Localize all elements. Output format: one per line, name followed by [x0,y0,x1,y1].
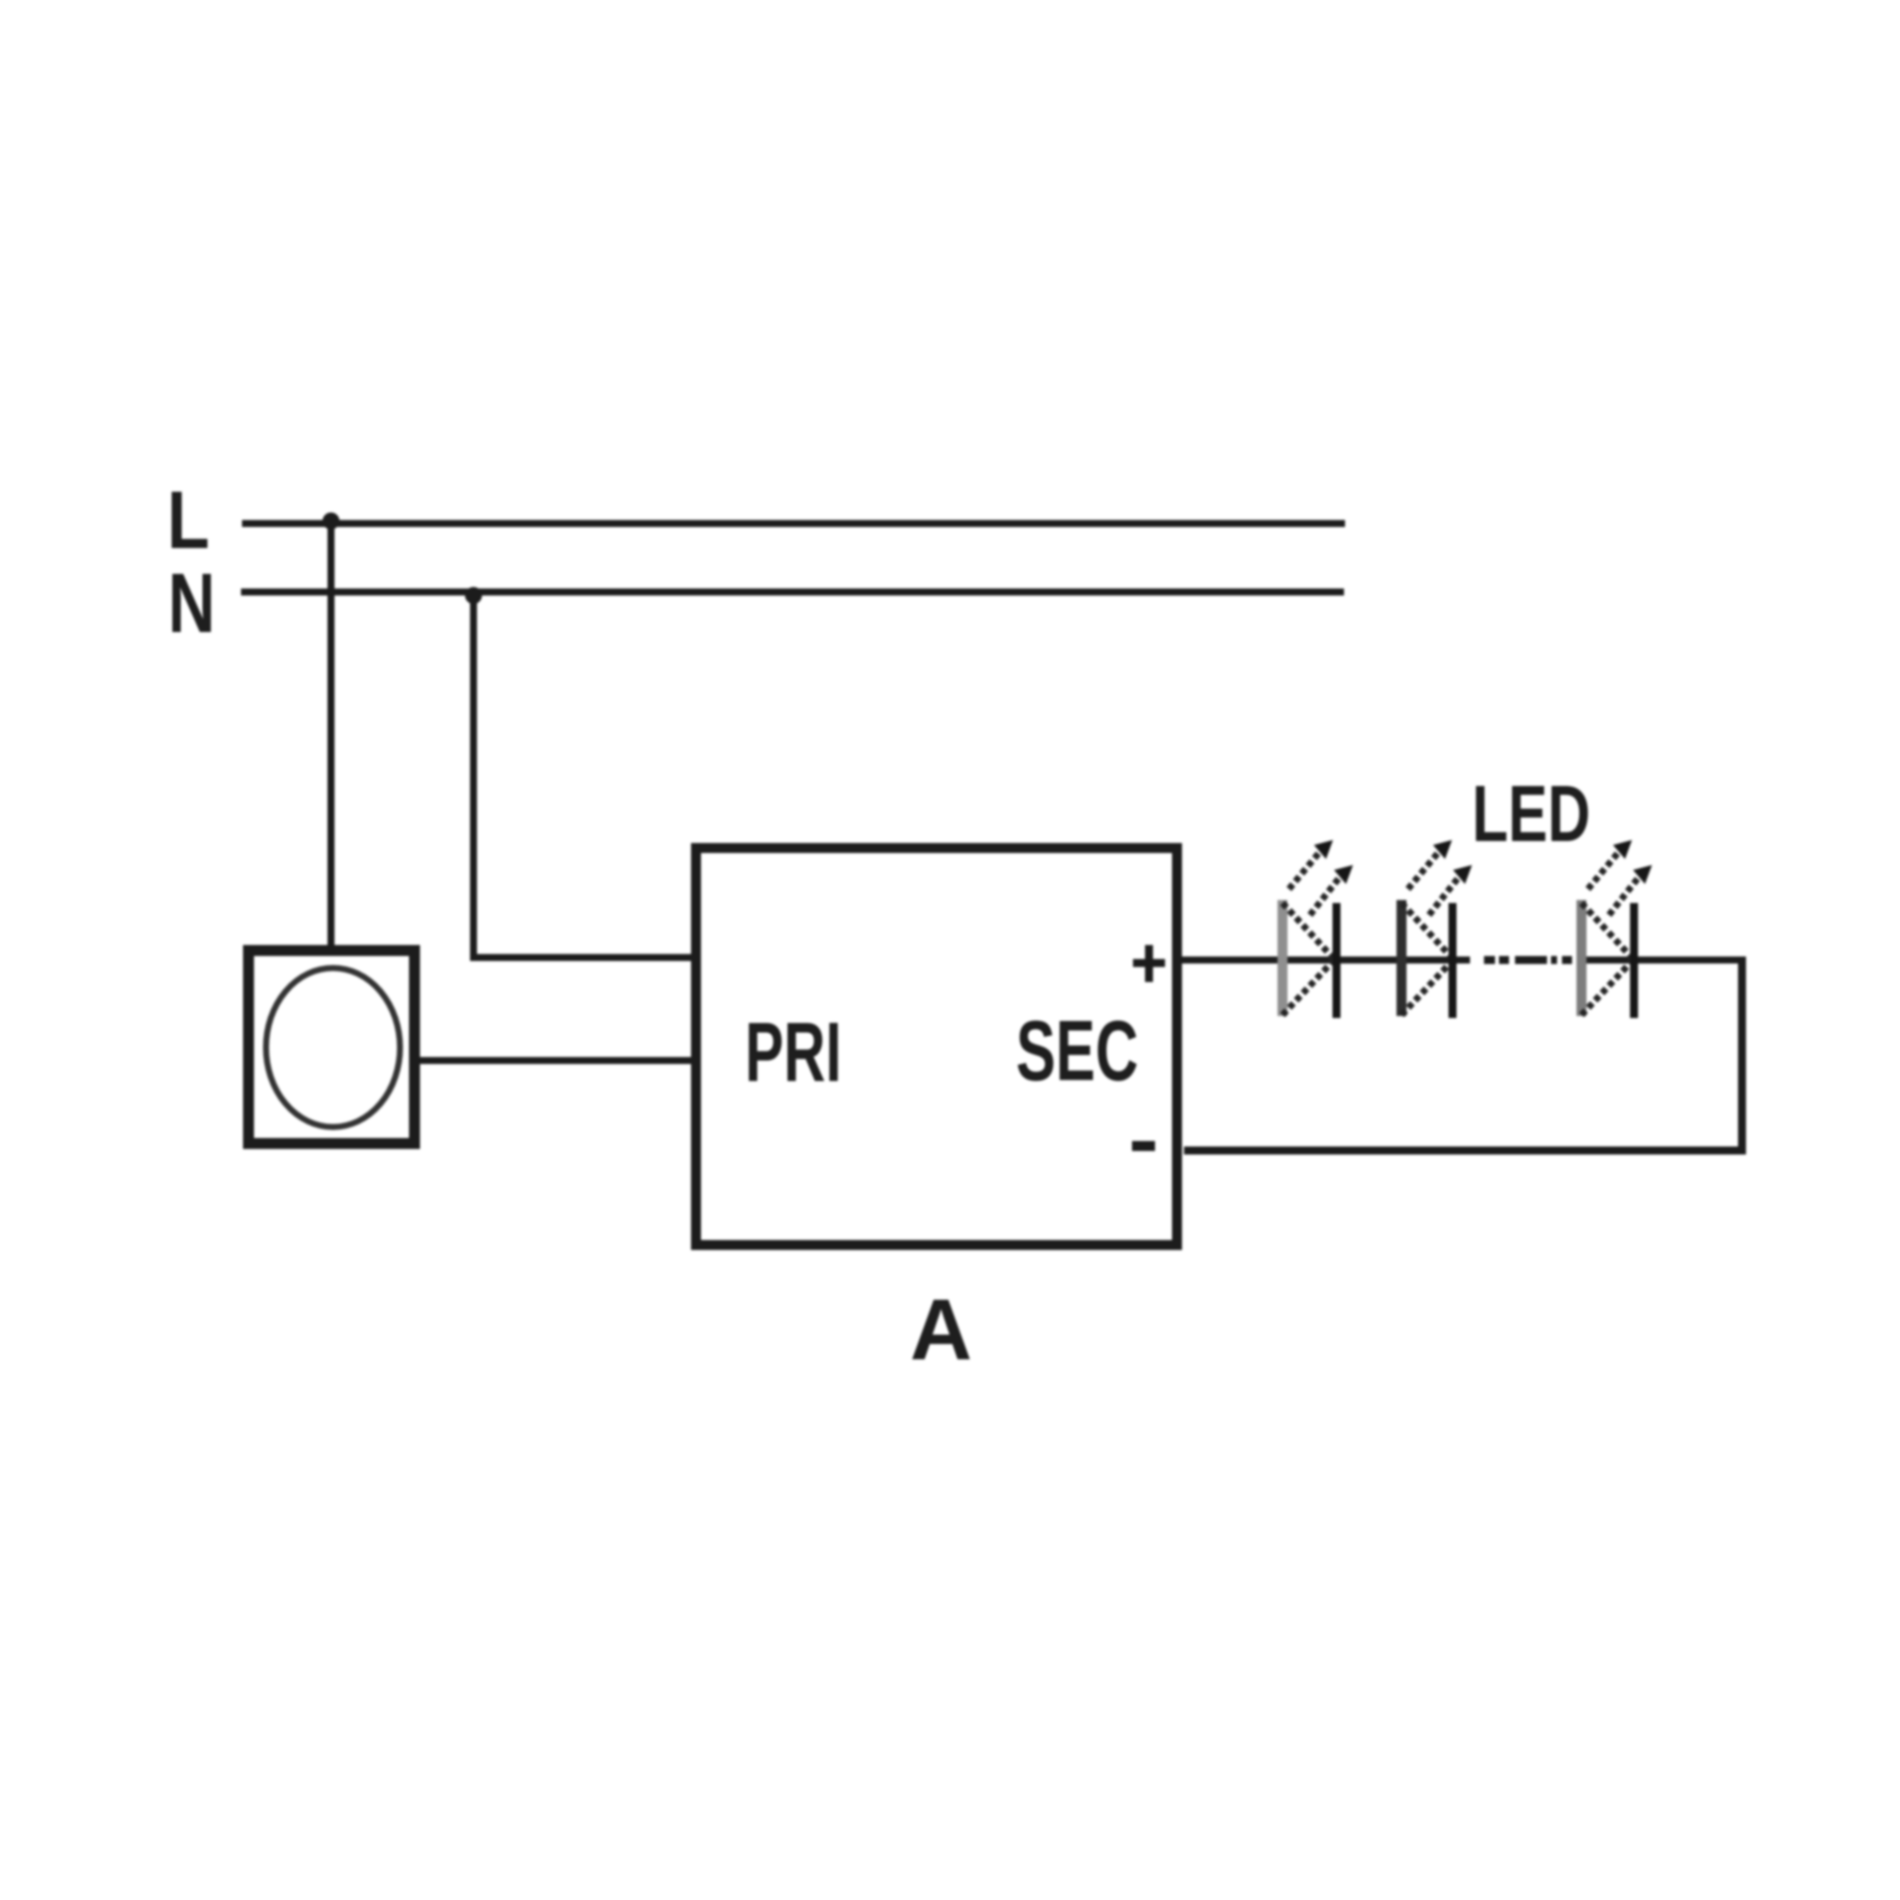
driver box A [696,848,1177,1245]
svg-text:N: N [168,556,215,650]
wire N line [241,589,1344,596]
wire plus output to LED chain [1178,957,1470,964]
wire after LED3 to right corner [1577,957,1742,964]
switch S1 box [249,951,415,1144]
wire dashed continuation [1484,956,1572,964]
label plus terminal [1133,945,1165,982]
wire from N corner to box A PRI [470,954,696,961]
wire L line [242,520,1345,527]
LED D2 [1402,840,1473,1018]
wire bottom return to minus [1184,1147,1746,1155]
wire from L down to switch [328,520,335,950]
LED D1 [1283,840,1354,1018]
wire from switch to box A PRI [414,1057,696,1064]
svg-text:LED: LED [1472,768,1590,858]
switch S1 circle [266,968,400,1127]
label minus terminal [1132,1141,1155,1151]
wire right vertical return [1738,957,1746,1151]
svg-text:SEC: SEC [1016,1004,1138,1099]
junction on N line [465,587,482,604]
svg-text:PRI: PRI [745,1007,842,1100]
wire from N down [470,589,477,958]
svg-text:L: L [167,475,210,567]
junction on L line [323,513,340,530]
LED D3 [1582,840,1653,1018]
svg-text:A: A [910,1282,972,1378]
